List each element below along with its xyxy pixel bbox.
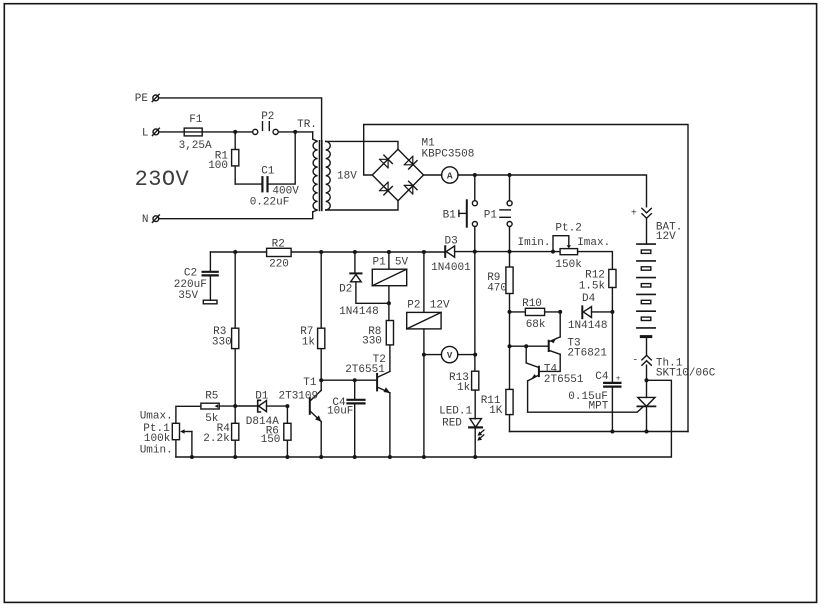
svg-text:Imax.: Imax. xyxy=(577,237,610,249)
resistor R6 150 xyxy=(261,406,291,457)
svg-text:A: A xyxy=(447,171,453,182)
svg-text:T1: T1 xyxy=(303,377,317,389)
junction node P1 top xyxy=(508,173,512,177)
svg-text:100k: 100k xyxy=(144,433,171,445)
switch contact P2 (mains) xyxy=(253,111,279,135)
wire PE to transformer core xyxy=(159,98,322,141)
transformer secondary winding 18V xyxy=(326,141,358,210)
wire R9 chain down to R11 xyxy=(509,312,511,390)
junction node P2 coil bottom / V left xyxy=(422,353,426,357)
svg-text:Pt.2: Pt.2 xyxy=(555,222,581,234)
junction node LED bottom xyxy=(473,455,477,459)
junction node D4/R12/C4 xyxy=(610,310,614,314)
zener diode D1 D814A xyxy=(235,391,287,428)
svg-text:1N4148: 1N4148 xyxy=(568,320,608,332)
junction node R3/R4/R5/D1 xyxy=(233,404,237,408)
svg-text:1N4148: 1N4148 xyxy=(339,306,379,318)
resistor R4 2.2k xyxy=(203,406,239,457)
svg-text:V: V xyxy=(447,351,453,361)
junction node thyristor anode xyxy=(645,378,649,382)
svg-text:TR.: TR. xyxy=(297,119,317,131)
resistor R2 220 xyxy=(267,238,292,270)
wire B1 junction down to R13 xyxy=(474,252,476,372)
svg-text:68k: 68k xyxy=(526,319,546,331)
relay contact P1 xyxy=(484,175,512,252)
svg-text:1N4001: 1N4001 xyxy=(431,262,471,274)
wire L to F1 xyxy=(159,131,184,133)
svg-text:18V: 18V xyxy=(337,171,357,183)
wire T1 collector to T2 base xyxy=(321,379,377,381)
svg-text:R5: R5 xyxy=(205,391,218,403)
ammeter A xyxy=(442,167,458,183)
fuse F1 3,25A xyxy=(179,114,212,152)
svg-text:R10: R10 xyxy=(522,298,542,310)
svg-text:1k: 1k xyxy=(457,382,471,394)
wire N to transformer primary xyxy=(159,212,313,219)
junction node C4 10uF bottom xyxy=(353,455,357,459)
junction node T1 emitter bottom xyxy=(319,455,323,459)
bridge diode lower-left xyxy=(380,182,393,195)
junction node P1 coil top xyxy=(387,250,391,254)
svg-text:SKT10/06C: SKT10/06C xyxy=(656,368,716,380)
capacitor C4 10uF xyxy=(327,380,365,457)
svg-text:RED: RED xyxy=(442,418,462,430)
terminal N xyxy=(142,214,160,226)
svg-text:C1: C1 xyxy=(261,165,275,177)
svg-text:D3: D3 xyxy=(445,236,458,248)
resistor R1 100 xyxy=(208,132,239,184)
svg-text:330: 330 xyxy=(362,336,382,348)
wire secondary bottom to bridge xyxy=(326,201,398,210)
junction node P2 coil top xyxy=(422,250,426,254)
svg-text:5V: 5V xyxy=(395,256,409,268)
junction node C4 10uF top xyxy=(353,378,357,382)
wire T3 base xyxy=(510,345,549,347)
bridge rectifier M1 KBPC3508 diamond xyxy=(372,138,474,201)
svg-text:LED.1: LED.1 xyxy=(439,406,472,418)
junction node P2 lead bottom xyxy=(422,455,426,459)
resistor R7 1k xyxy=(300,252,325,390)
svg-text:P2: P2 xyxy=(407,299,420,311)
relay coil P2 12V xyxy=(407,252,450,457)
svg-text:D1: D1 xyxy=(255,391,269,403)
svg-text:C2: C2 xyxy=(184,267,197,279)
junction node D2 top xyxy=(353,250,357,254)
voltmeter V xyxy=(424,346,475,362)
junction node D1/R6/T1 base xyxy=(285,404,289,408)
transistor T4 2T6551 xyxy=(526,346,584,386)
resistor R8 330 xyxy=(362,321,393,348)
svg-text:D2: D2 xyxy=(339,284,352,296)
battery BAT. 12V plus connector xyxy=(631,208,682,244)
terminal L xyxy=(142,127,160,139)
junction node V right / R13 xyxy=(473,353,477,357)
svg-text:1.5k: 1.5k xyxy=(579,280,606,292)
svg-text:2T6551: 2T6551 xyxy=(345,364,385,376)
potentiometer Pt.1 100k xyxy=(140,406,201,457)
junction node R10/D4/T3 emitter xyxy=(558,310,562,314)
wire P2 to transformer xyxy=(278,131,313,133)
transformer TR. primary winding xyxy=(313,132,318,212)
svg-text:1K: 1K xyxy=(489,405,503,417)
junction node T4 collector tap xyxy=(524,344,528,348)
wire battery minus bypass to bottom rail xyxy=(176,380,672,457)
wire Pt.2 right to R12 xyxy=(578,252,613,270)
wire bridge plus to ammeter xyxy=(424,174,442,176)
junction node Pt.1 wiper bottom xyxy=(190,455,194,459)
svg-text:100: 100 xyxy=(208,160,228,172)
svg-text:220: 220 xyxy=(269,259,289,271)
svg-text:Umin.: Umin. xyxy=(140,445,173,457)
svg-text:35V: 35V xyxy=(178,290,198,302)
svg-text:2T6551: 2T6551 xyxy=(544,374,584,386)
svg-text:10uF: 10uF xyxy=(327,406,353,418)
pushbutton B1 xyxy=(443,175,478,252)
transistor T3 2T6821 xyxy=(540,312,608,372)
svg-text:MPT: MPT xyxy=(589,401,609,413)
capacitor C2 220uF 35V xyxy=(174,252,218,304)
junction node R7 top xyxy=(319,250,323,254)
junction node B1 top xyxy=(473,173,477,177)
svg-text:PE: PE xyxy=(135,93,149,105)
battery cells xyxy=(637,244,655,337)
junction node T2 emitter bottom xyxy=(388,455,392,459)
resistor R9 470 xyxy=(487,252,513,312)
junction node D3/B1 xyxy=(473,250,477,254)
svg-text:2T6821: 2T6821 xyxy=(567,348,607,360)
svg-text:12V: 12V xyxy=(430,299,450,311)
junction node T3 base / R11 xyxy=(508,344,512,348)
svg-text:2T3109: 2T3109 xyxy=(279,391,319,403)
svg-text:N: N xyxy=(142,214,149,226)
svg-text:23OV: 23OV xyxy=(135,167,190,192)
transistor T1 2T3109 xyxy=(279,377,322,457)
junction node thyristor cathode on negative rail xyxy=(645,430,649,434)
LED.1 RED xyxy=(439,406,484,458)
battery minus connector xyxy=(632,338,651,380)
svg-text:0.22uF: 0.22uF xyxy=(250,196,290,208)
wire bridge minus to top rail and right border down xyxy=(364,125,688,432)
wire R3 chain vertical xyxy=(234,252,236,406)
svg-text:150: 150 xyxy=(261,434,281,446)
svg-text:Umax.: Umax. xyxy=(140,411,173,423)
diode D4 1N4148 xyxy=(568,293,613,332)
wire Imin line P1 to Pt.2 xyxy=(475,251,560,253)
transistor T2 2T6551 xyxy=(345,345,390,457)
svg-text:-: - xyxy=(632,355,638,366)
bridge diode upper-right xyxy=(404,156,417,169)
svg-text:150k: 150k xyxy=(555,259,582,271)
wire ammeter to battery plus xyxy=(458,175,647,207)
junction node C4 bottom on negative rail xyxy=(610,430,614,434)
junction node P1/R9 xyxy=(508,250,512,254)
diode D3 1N4001 xyxy=(431,236,475,274)
resistor R13 1k xyxy=(449,371,479,419)
svg-text:Imin.: Imin. xyxy=(518,237,551,249)
capacitor C4 0.15uF MPT xyxy=(568,312,621,432)
potentiometer Pt.2 150k xyxy=(518,222,611,271)
wire negative rail R11 to right border xyxy=(510,431,689,433)
svg-text:F1: F1 xyxy=(189,114,203,126)
svg-text:3,25A: 3,25A xyxy=(179,140,212,152)
transformer core xyxy=(320,141,322,211)
capacitor C1 0.22uF 400V xyxy=(235,134,299,209)
junction node Pt.2 wiper/left xyxy=(551,250,555,254)
svg-text:C4: C4 xyxy=(595,371,609,383)
control rail C2 to D3 xyxy=(210,251,444,253)
svg-text:330: 330 xyxy=(212,337,232,349)
svg-text:D4: D4 xyxy=(582,293,596,305)
thyristor Th.1 xyxy=(637,380,655,431)
resistor R10 68k xyxy=(510,298,561,331)
svg-text:1k: 1k xyxy=(302,337,316,349)
svg-text:KBPC3508: KBPC3508 xyxy=(422,149,475,161)
svg-text:470: 470 xyxy=(487,282,507,294)
svg-text:P1: P1 xyxy=(484,210,498,222)
junction node C1 right xyxy=(293,130,297,134)
bridge diode lower-right xyxy=(404,181,417,194)
bridge diode upper-left xyxy=(380,155,393,168)
resistor R5 5k xyxy=(201,391,235,425)
wire F1 to P2 contact xyxy=(202,131,252,133)
relay coil P1 5V xyxy=(372,252,408,321)
svg-text:12V: 12V xyxy=(656,231,676,243)
wire secondary top to bridge xyxy=(326,141,398,149)
terminal PE xyxy=(135,93,159,105)
junction node D2/P1coil/R8 xyxy=(387,301,391,305)
svg-text:P1: P1 xyxy=(373,256,387,268)
junction node T1 collector tap xyxy=(319,378,323,382)
junction node R9/R10 xyxy=(508,310,512,314)
svg-text:5k: 5k xyxy=(205,413,219,425)
svg-text:R2: R2 xyxy=(272,238,285,250)
resistor R12 1.5k xyxy=(579,269,616,312)
svg-text:P2: P2 xyxy=(261,111,274,123)
svg-text:B1: B1 xyxy=(443,210,457,222)
resistor R11 1K xyxy=(481,389,513,431)
resistor R3 330 xyxy=(212,326,239,349)
junction node R6 bottom xyxy=(285,455,289,459)
wire thyristor gate xyxy=(528,381,644,412)
diode D2 1N4148 xyxy=(339,252,389,318)
svg-text:2.2k: 2.2k xyxy=(203,433,230,445)
junction node F1/R1/C1 xyxy=(233,130,237,134)
svg-text:L: L xyxy=(142,127,149,139)
svg-text:+: + xyxy=(631,209,637,220)
junction node R4 bottom xyxy=(233,455,237,459)
junction node R3 top xyxy=(233,250,237,254)
